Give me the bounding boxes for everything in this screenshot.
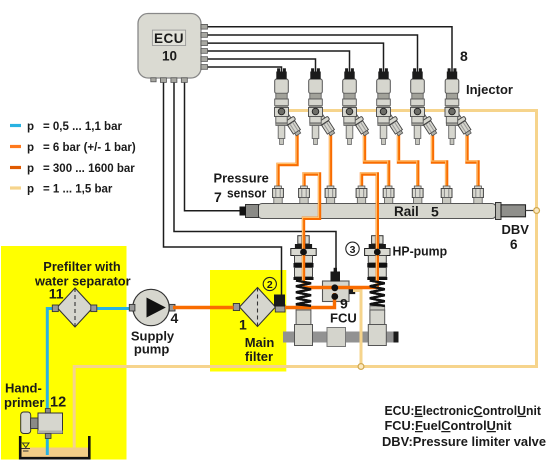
hand primer <box>21 412 31 434</box>
HP pump element left <box>291 236 316 346</box>
svg-text:3: 3 <box>350 244 356 256</box>
svg-text:DBV: DBV <box>502 222 530 237</box>
pipe injector 5 to rail port 7 <box>433 135 447 188</box>
pipe supply pump to main filter <box>173 306 234 309</box>
fuel tank <box>21 448 89 459</box>
pipe link between pump elements through FCU <box>304 286 378 289</box>
pipe injector 6 to rail port 8 <box>467 135 478 188</box>
rail fitting 4 <box>356 186 367 204</box>
wire ECU to injector 6 <box>208 27 453 72</box>
rail fitting 1 <box>273 186 284 204</box>
injector 2 <box>309 68 338 144</box>
HP pump element right <box>365 236 390 346</box>
svg-text:4: 4 <box>171 310 179 326</box>
rail fitting 2 <box>299 186 310 204</box>
svg-text:6: 6 <box>510 237 518 252</box>
pipe right HP-pump element to rail port 4 <box>362 174 378 288</box>
svg-text:pump: pump <box>134 342 169 357</box>
svg-text:= 1 ... 1,5 bar: = 1 ... 1,5 bar <box>43 184 113 196</box>
svg-text:11: 11 <box>49 286 64 302</box>
svg-text:Pressure: Pressure <box>214 171 269 186</box>
rail fitting 6 <box>412 186 423 204</box>
svg-text:sensor: sensor <box>227 186 266 201</box>
big yellow box (tank/low pressure zone) <box>1 246 127 460</box>
svg-text:= 6 bar (+/- 1 bar): = 6 bar (+/- 1 bar) <box>43 142 136 154</box>
circled label 3 <box>346 242 359 255</box>
orange pipes <box>173 134 478 308</box>
circled label 2 <box>263 277 276 290</box>
main filter diamond <box>240 288 276 327</box>
prefilter diamond <box>57 288 93 327</box>
svg-text:HP-pump: HP-pump <box>393 244 448 259</box>
wire ECU to pressure sensor <box>185 81 241 211</box>
svg-text:ECU: ECU <box>154 31 184 46</box>
pipe injector 1 to rail port 1 <box>278 135 297 188</box>
bottom right legend <box>382 404 546 449</box>
svg-text:7: 7 <box>214 189 222 205</box>
wire ECU to main filter sensor <box>164 81 282 295</box>
camshaft <box>283 332 399 343</box>
wire ECU to FCU <box>174 81 336 272</box>
spring coils redrawn over pipes <box>296 281 311 306</box>
wire ECU to injector 5 <box>208 35 418 72</box>
main filter yellow box <box>210 270 286 372</box>
rail fitting 5 <box>383 186 394 204</box>
injector 5 <box>411 68 440 144</box>
DBV at rail right <box>496 203 502 220</box>
svg-text:2: 2 <box>267 279 273 291</box>
svg-text:Injector: Injector <box>466 82 513 97</box>
svg-text:p: p <box>27 121 34 133</box>
svg-text:1: 1 <box>239 317 247 333</box>
FCU block <box>323 281 350 302</box>
legend swatch orange 6 bar <box>10 145 21 148</box>
svg-text:12: 12 <box>50 395 66 411</box>
svg-text:5: 5 <box>431 204 439 220</box>
svg-text:primer: primer <box>4 395 44 410</box>
svg-text:10: 10 <box>162 49 177 64</box>
svg-text:9: 9 <box>340 296 348 312</box>
legend swatch cream return <box>10 186 21 189</box>
wire DBV to return node <box>526 210 535 212</box>
dots over orange: pump flange + FCU <box>300 249 307 256</box>
injector 3 <box>343 68 372 144</box>
svg-text:p: p <box>27 142 34 154</box>
svg-text:Rail: Rail <box>394 204 419 219</box>
svg-text:= 0,5 ... 1,1 bar: = 0,5 ... 1,1 bar <box>43 121 122 133</box>
pipe main filter to FCU <box>285 293 335 308</box>
node at DBV return junction <box>534 208 540 214</box>
rail <box>258 204 496 219</box>
pipe injector 2 to rail port 3 <box>329 134 332 188</box>
ECU bottom connector tabs <box>151 78 188 83</box>
svg-text:= 300 ... 1600 bar: = 300 ... 1600 bar <box>43 163 135 175</box>
injector 1 <box>275 68 304 144</box>
svg-text:Main: Main <box>245 335 275 350</box>
injector 4 <box>377 68 406 144</box>
wire ECU to injector 3 <box>208 51 350 72</box>
cyan suction line: tank - hand primer - prefilter - supply pump <box>47 309 57 456</box>
fuel level symbol <box>23 443 30 448</box>
svg-text:p: p <box>27 184 34 196</box>
ECU box <box>138 14 201 79</box>
svg-text:Hand-: Hand- <box>5 381 42 396</box>
svg-text:FCU:FuelControlUnit: FCU:FuelControlUnit <box>385 419 513 433</box>
wire ECU to injector 2 <box>208 59 316 72</box>
svg-text:FCU: FCU <box>330 311 357 326</box>
supply pump <box>133 289 169 325</box>
wire ECU to injector 4 <box>208 43 384 71</box>
legend swatch cyan low pressure <box>10 124 21 127</box>
cream line FCU to bottom return (drawn over camshaft) <box>353 291 361 367</box>
svg-text:Prefilter with: Prefilter with <box>43 259 121 274</box>
cream return line: injectors to right side down to bottom and tank <box>74 111 536 450</box>
legend swatch dark orange high pressure <box>10 166 21 169</box>
pipe injector 4 to rail port 6 <box>399 135 418 188</box>
pipe left HP-pump element to rail port 2 <box>304 174 320 288</box>
pressure sensor on rail left <box>246 205 259 218</box>
rail fitting 7 <box>441 186 452 204</box>
svg-text:8: 8 <box>460 48 468 64</box>
injector 6 (item 8) <box>445 68 474 144</box>
pipe injector 3 to rail port 5 <box>365 135 389 188</box>
legend text rows <box>27 121 136 196</box>
node at FCU return junction <box>358 364 364 370</box>
svg-text:DBV:Pressure limiter valve: DBV:Pressure limiter valve <box>382 435 546 449</box>
wire ECU to injector 1 <box>208 67 282 72</box>
ECU right connector tabs <box>201 24 208 69</box>
rail fitting 8 <box>473 186 484 204</box>
svg-text:p: p <box>27 163 34 175</box>
svg-text:filter: filter <box>245 349 273 364</box>
svg-text:ECU:ElectronicControlUnit: ECU:ElectronicControlUnit <box>385 404 542 418</box>
rail fitting 3 <box>325 186 336 204</box>
